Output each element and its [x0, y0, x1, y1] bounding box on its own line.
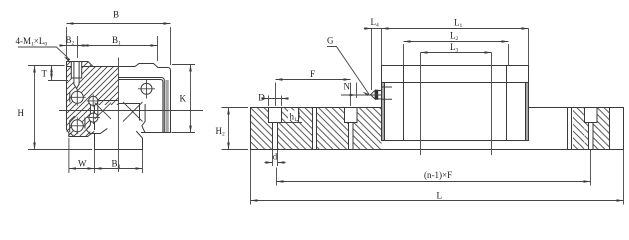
- svg-text:L: L: [437, 191, 443, 201]
- svg-text:F: F: [310, 69, 315, 79]
- svg-text:d: d: [273, 152, 278, 162]
- svg-text:K: K: [180, 94, 187, 104]
- svg-text:T: T: [42, 69, 48, 79]
- svg-text:N: N: [344, 82, 351, 92]
- svg-text:W: W: [78, 159, 87, 169]
- svg-text:G: G: [327, 36, 334, 46]
- svg-text:H: H: [18, 108, 25, 118]
- svg-text:B: B: [113, 10, 119, 20]
- svg-text:(n-1)×F: (n-1)×F: [424, 170, 452, 180]
- svg-text:D: D: [258, 93, 265, 103]
